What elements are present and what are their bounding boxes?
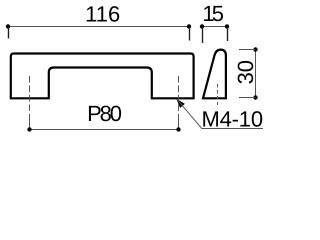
handle front view outline <box>11 54 194 99</box>
dimension 15 end dots <box>200 24 204 28</box>
dimension 116 extension ticks <box>8 27 10 39</box>
side view profile <box>203 50 226 99</box>
dimension 15 line <box>202 26 227 28</box>
dimension 30 end dots <box>253 47 257 51</box>
dimension P80 line <box>30 129 179 131</box>
svg-text:116: 116 <box>85 1 120 26</box>
left hole centerline <box>29 76 31 121</box>
leader line <box>177 99 263 128</box>
dimension 30 extension ticks <box>239 49 256 51</box>
svg-text:15: 15 <box>202 1 223 26</box>
dimension 15 extension ticks <box>202 27 204 44</box>
svg-text:M4-10: M4-10 <box>202 106 263 131</box>
dimension 116 end dots <box>6 24 10 28</box>
leader arrowhead <box>177 99 185 107</box>
svg-text:30: 30 <box>233 60 258 84</box>
svg-text:P80: P80 <box>87 101 122 126</box>
dimension 116 line <box>8 26 189 28</box>
dimension 30 line <box>255 50 257 98</box>
dimension P80 end dots <box>27 127 31 131</box>
side view screw centerline <box>217 84 219 105</box>
right hole centerline <box>178 76 180 121</box>
